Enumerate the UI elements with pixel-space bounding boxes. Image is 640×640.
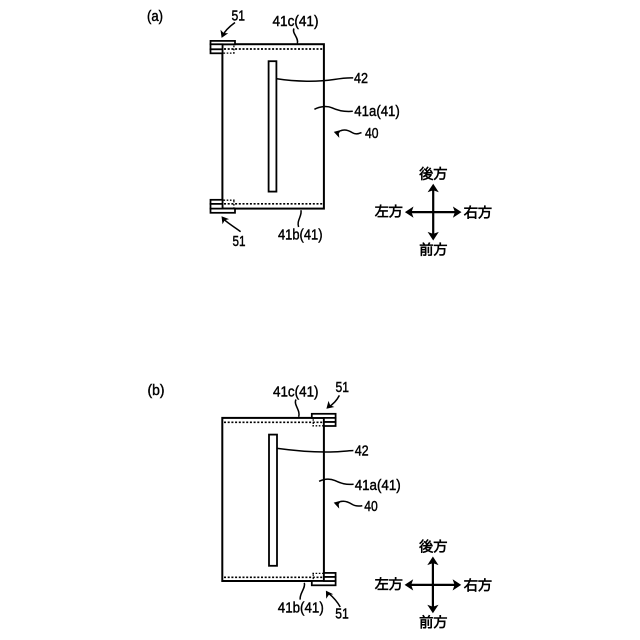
text 右方 (a) [464, 206, 491, 219]
svg-text:51: 51 [233, 234, 246, 250]
dashed fold line 41b (b) [224, 576, 322, 578]
compass cross (b) [410, 562, 455, 607]
svg-text:42: 42 [354, 71, 368, 87]
dashed fold line 41c (a) [224, 48, 323, 50]
plate 41 (b) [222, 418, 324, 581]
svg-text:51: 51 [336, 380, 350, 396]
svg-text:40: 40 [365, 126, 379, 142]
svg-text:41b(41): 41b(41) [278, 227, 323, 243]
slot 42 (b) [269, 435, 277, 566]
dashed fold line 41b (a) [224, 203, 323, 205]
arrowhead 40 (b) [334, 501, 342, 509]
svg-text:41a(41): 41a(41) [354, 104, 400, 120]
plate 41 (a) [222, 44, 324, 208]
svg-text:41b(41): 41b(41) [278, 601, 324, 617]
clip 51 bottom (a) [211, 200, 236, 213]
clip 51 top hidden outline (b) [312, 419, 323, 426]
leader 41b(41) (a) [298, 210, 301, 227]
leader to clip 51 bottom (a) [224, 220, 240, 232]
text 後方 (a) [420, 167, 447, 180]
text 左方 (b) [375, 577, 402, 590]
svg-text:42: 42 [355, 443, 369, 459]
leader 41b(41) (b) [300, 583, 304, 600]
svg-text:40: 40 [364, 499, 378, 515]
clip 51 top (a) [211, 41, 236, 53]
leader 41c(41) (b) [295, 400, 299, 417]
arrowhead at clip 51 bottom (b) [326, 591, 333, 599]
clip 51 top hidden outline (a) [224, 46, 235, 54]
compass cross (a) [411, 190, 456, 235]
leader 41a(41) (a) [314, 107, 352, 112]
clip 51 bottom (b) [312, 573, 336, 585]
svg-text:(b): (b) [148, 383, 165, 399]
clip 51 bottom hidden outline (b) [312, 573, 323, 580]
text 右方 (b) [464, 578, 491, 591]
svg-text:(a): (a) [147, 9, 163, 25]
svg-text:51: 51 [232, 8, 246, 24]
leader 42 (a) [277, 78, 353, 81]
arrowhead at clip 51 top (a) [221, 30, 229, 38]
arrowhead 40 (a) [334, 130, 342, 138]
text 後方 (b) [420, 540, 447, 553]
compass arrowheads (b) [427, 557, 438, 566]
svg-text:51: 51 [335, 607, 349, 623]
leader 41c(41) (a) [293, 29, 297, 44]
slot 42 (a) [269, 61, 277, 191]
arrowhead at clip 51 top (b) [326, 401, 334, 409]
leader to clip 51 bottom (b) [328, 593, 340, 607]
leader 40 (b) [340, 501, 362, 506]
svg-text:41c(41): 41c(41) [273, 385, 319, 401]
clip 51 bottom hidden outline (a) [224, 200, 235, 207]
text 左方 (a) [375, 205, 402, 218]
svg-text:41c(41): 41c(41) [273, 14, 319, 30]
leader 42 (b) [277, 448, 353, 452]
leader to clip 51 top (a) [223, 23, 235, 36]
svg-text:41a(41): 41a(41) [355, 478, 401, 494]
compass arrowheads (a) [428, 184, 439, 193]
leader 41a(41) (b) [319, 479, 354, 484]
clip 51 top (b) [312, 414, 336, 426]
leader 40 (a) [340, 130, 361, 134]
leader to clip 51 top (b) [328, 395, 339, 407]
arrowhead at clip 51 bottom (a) [222, 216, 230, 224]
dashed fold line 41c (b) [224, 421, 322, 423]
text 前方 (a) [420, 243, 447, 256]
text 前方 (b) [420, 615, 447, 628]
